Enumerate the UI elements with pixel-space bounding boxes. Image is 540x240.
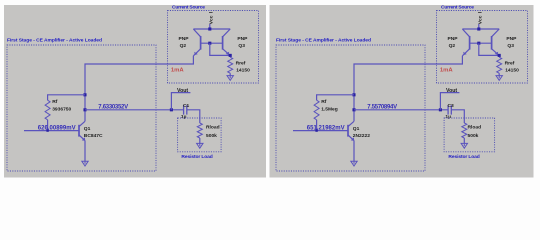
svg-text:Resistor Load: Resistor Load bbox=[448, 154, 479, 160]
junction Rf branch bbox=[352, 93, 355, 96]
wire current source output bbox=[85, 56, 193, 122]
svg-text:Q3: Q3 bbox=[507, 43, 514, 49]
svg-text:7.6330352V: 7.6330352V bbox=[98, 104, 128, 110]
wire current source output bbox=[354, 56, 462, 122]
capacitor C1 bbox=[184, 105, 187, 114]
wire Rf top branch bbox=[317, 95, 354, 100]
svg-text:Resistor Load: Resistor Load bbox=[181, 154, 212, 160]
capacitor C3 bbox=[448, 105, 451, 114]
wire diode connection bbox=[210, 43, 230, 55]
svg-text:PNP: PNP bbox=[448, 36, 459, 42]
wire Vcc stub bbox=[209, 24, 211, 29]
svg-text:PNP: PNP bbox=[506, 36, 517, 42]
wire base rail bbox=[201, 42, 223, 44]
wire emitter bbox=[353, 141, 355, 162]
svg-text:PNP: PNP bbox=[179, 36, 190, 42]
resistor load dashed box bbox=[444, 118, 495, 152]
wire base input bbox=[293, 130, 348, 132]
first stage dashed boundary box bbox=[7, 45, 156, 171]
svg-text:BC847C: BC847C bbox=[84, 133, 103, 139]
transistor Q1 NPN bbox=[79, 121, 85, 141]
svg-text:Q3: Q3 bbox=[238, 43, 245, 49]
svg-text:1.5Meg: 1.5Meg bbox=[321, 107, 338, 113]
svg-text:Vcc: Vcc bbox=[208, 15, 214, 24]
svg-text:C1: C1 bbox=[183, 103, 190, 109]
svg-text:3936750: 3936750 bbox=[52, 107, 71, 113]
svg-text:Rload: Rload bbox=[206, 125, 220, 131]
svg-text:Q2: Q2 bbox=[180, 43, 187, 49]
resistor Rref bbox=[497, 57, 502, 73]
transistor Q2 PNP bbox=[462, 29, 469, 56]
wire Rf top branch bbox=[48, 95, 85, 100]
ground below Rload bbox=[199, 143, 201, 146]
transistor Q3 PNP bbox=[492, 29, 500, 55]
wire diode connection bbox=[479, 43, 499, 55]
svg-text:Vout: Vout bbox=[177, 88, 188, 94]
svg-text:651.21982mV: 651.21982mV bbox=[307, 125, 345, 131]
svg-text:Rload: Rload bbox=[468, 125, 482, 131]
junction Rref node bbox=[498, 54, 501, 57]
transistor Q3 PNP bbox=[223, 29, 231, 55]
transistor Q1 NPN bbox=[348, 121, 354, 141]
svg-text:7.5570894V: 7.5570894V bbox=[367, 104, 397, 110]
svg-text:Current Source: Current Source bbox=[441, 4, 474, 10]
ground below Rref bbox=[229, 76, 231, 79]
ground below Rload bbox=[463, 143, 465, 146]
left schematic panel background bbox=[4, 5, 266, 178]
wire collector output bbox=[85, 109, 184, 111]
wire Vcc rail bbox=[193, 28, 230, 30]
wire base rail bbox=[470, 42, 492, 44]
resistor Rf bbox=[45, 100, 50, 120]
wire Vcc stub bbox=[478, 24, 480, 29]
svg-text:Current Source: Current Source bbox=[172, 4, 205, 10]
svg-text:1mA: 1mA bbox=[440, 68, 454, 74]
ground below Q1 emitter bbox=[84, 161, 86, 164]
ground below Rref bbox=[498, 76, 500, 79]
wire base input bbox=[24, 130, 79, 132]
resistor Rload bbox=[197, 123, 202, 138]
junction base rail bbox=[208, 42, 211, 45]
svg-text:Rf: Rf bbox=[52, 99, 58, 105]
svg-text:500k: 500k bbox=[206, 133, 217, 139]
resistor Rload bbox=[462, 123, 467, 138]
junction Rf bottom bbox=[315, 129, 317, 131]
transistor Q2 PNP bbox=[193, 29, 200, 56]
wire emitter bbox=[84, 141, 86, 162]
svg-text:Vcc: Vcc bbox=[477, 15, 483, 24]
wire Vcc rail bbox=[462, 28, 499, 30]
wire Vout stub bbox=[440, 93, 459, 110]
junction Vout bbox=[170, 108, 173, 111]
svg-text:1mA: 1mA bbox=[171, 68, 185, 74]
svg-text:First Stage - CE Amplifier - A: First Stage - CE Amplifier - Active Load… bbox=[7, 37, 102, 43]
wire collector output bbox=[354, 109, 448, 111]
net Vcc label bbox=[208, 15, 214, 24]
svg-text:Rf: Rf bbox=[321, 99, 327, 105]
junction Rf bottom bbox=[46, 129, 48, 131]
junction Vcc rail bbox=[208, 27, 211, 30]
svg-text:Q1: Q1 bbox=[84, 126, 91, 132]
net Vcc label bbox=[477, 15, 483, 24]
svg-text:14150: 14150 bbox=[236, 67, 250, 73]
junction base rail bbox=[477, 42, 480, 45]
svg-text:PNP: PNP bbox=[237, 36, 248, 42]
junction Rf branch bbox=[83, 93, 86, 96]
svg-text:Rref: Rref bbox=[505, 61, 515, 67]
svg-text:14150: 14150 bbox=[505, 67, 519, 73]
junction Vcc rail bbox=[477, 27, 480, 30]
resistor Rf bbox=[314, 100, 319, 120]
right schematic panel background bbox=[270, 5, 534, 178]
svg-text:Vout: Vout bbox=[446, 88, 457, 94]
svg-text:Q1: Q1 bbox=[353, 126, 360, 132]
svg-text:First Stage - CE Amplifier - A: First Stage - CE Amplifier - Active Load… bbox=[276, 37, 371, 43]
svg-text:C3: C3 bbox=[448, 103, 455, 109]
junction collector node bbox=[352, 108, 355, 111]
svg-text:Q2: Q2 bbox=[449, 43, 456, 49]
wire cap to load bbox=[187, 110, 200, 123]
svg-text:500k: 500k bbox=[468, 133, 479, 139]
ground below Q1 emitter bbox=[353, 161, 355, 164]
junction collector node bbox=[83, 108, 86, 111]
svg-text:626.00899mV: 626.00899mV bbox=[38, 125, 76, 131]
wire cap to load bbox=[451, 110, 464, 123]
resistor load dashed box bbox=[178, 118, 222, 152]
wire Vout stub bbox=[171, 93, 190, 110]
junction Vout bbox=[439, 108, 442, 111]
current source dashed boundary box bbox=[437, 11, 528, 84]
svg-text:2N2222: 2N2222 bbox=[353, 133, 370, 139]
svg-text:1µ: 1µ bbox=[445, 114, 451, 120]
junction Rref node bbox=[229, 54, 232, 57]
current source dashed boundary box bbox=[168, 11, 259, 84]
first stage dashed boundary box bbox=[276, 45, 425, 171]
svg-text:1µ: 1µ bbox=[181, 114, 187, 120]
svg-text:Rref: Rref bbox=[236, 61, 246, 67]
resistor Rref bbox=[228, 57, 233, 73]
